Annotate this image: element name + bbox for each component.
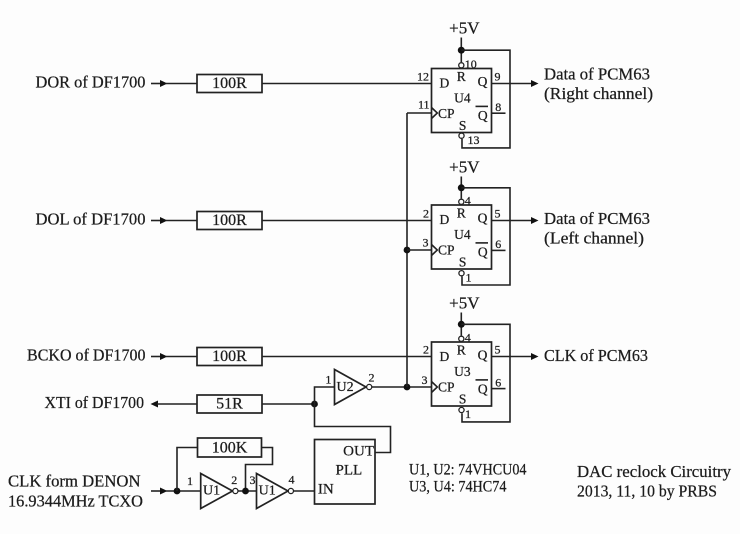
svg-text:R: R <box>457 205 466 220</box>
svg-text:Data of PCM63: Data of PCM63 <box>544 209 650 228</box>
U2 output bubble <box>367 384 372 389</box>
svg-text:U3: U3 <box>454 364 471 379</box>
svg-text:(Right channel): (Right channel) <box>544 84 653 103</box>
svg-text:8: 8 <box>495 100 501 114</box>
svg-text:4: 4 <box>465 193 471 207</box>
wire 100K to node C <box>246 448 273 492</box>
svg-text:2: 2 <box>369 371 375 385</box>
svg-text:100K: 100K <box>212 440 248 457</box>
svg-text:Data of PCM63: Data of PCM63 <box>544 65 650 84</box>
svg-text:S: S <box>459 392 467 407</box>
svg-text:D: D <box>440 212 450 227</box>
wire CLK input arrow <box>151 488 201 495</box>
svg-text:Q: Q <box>478 74 488 89</box>
U1b output bubble <box>288 488 293 493</box>
svg-text:U4: U4 <box>454 91 471 106</box>
svg-text:U1, U2: 74VHCU04: U1, U2: 74VHCU04 <box>409 462 527 479</box>
flip-flop U4 (right channel) box <box>432 69 492 134</box>
svg-text:+5V: +5V <box>449 19 480 38</box>
svg-text:11: 11 <box>418 98 430 112</box>
svg-text:51R: 51R <box>216 396 243 413</box>
wire U4 Qbar stub pin8 <box>492 112 506 114</box>
node +5V junction (middle) <box>458 184 465 191</box>
svg-text:PLL: PLL <box>336 463 363 479</box>
svg-text:S: S <box>459 118 467 133</box>
svg-text:CP: CP <box>438 242 455 257</box>
wire 100R to U4 D pin12 <box>262 83 432 85</box>
node +5V junction (top) <box>458 47 465 54</box>
resistor 100R (DOR) <box>197 75 262 93</box>
wire +5V to U3 R <box>460 313 462 336</box>
svg-text:Q: Q <box>478 211 488 226</box>
resistor 51R <box>197 395 262 413</box>
svg-text:100R: 100R <box>212 348 247 365</box>
svg-text:D: D <box>440 349 450 364</box>
svg-text:2: 2 <box>423 343 429 357</box>
svg-text:100R: 100R <box>212 75 247 92</box>
wire U1b to PLL IN <box>294 490 315 492</box>
svg-text:2013, 11, 10 by PRBS: 2013, 11, 10 by PRBS <box>577 482 717 501</box>
svg-text:IN: IN <box>318 482 334 498</box>
wire clock bus to U4 CP pin11 <box>407 112 432 114</box>
svg-text:D: D <box>440 76 450 91</box>
node clock bus junction at U2 output <box>404 384 411 391</box>
flip-flop U3 box <box>432 342 492 407</box>
inverter U1b triangle <box>257 474 289 509</box>
wire BCKO input arrow <box>151 353 197 360</box>
wire node B up to 100K <box>177 448 198 492</box>
wire +5V to U4b R <box>460 177 462 199</box>
node C junction between inverters <box>242 488 249 495</box>
svg-text:12: 12 <box>417 70 429 84</box>
svg-text:3: 3 <box>423 236 429 250</box>
wire U4b Q output with arrow <box>492 217 539 224</box>
op-amp U2 inverter triangle <box>335 370 367 405</box>
wire U2 output to U3 CP pin3 <box>372 386 432 388</box>
svg-text:3: 3 <box>422 373 428 387</box>
svg-text:16.9344MHz TCXO: 16.9344MHz TCXO <box>8 492 143 511</box>
wire XTI output arrow (points left) <box>151 401 198 408</box>
svg-text:U3, U4: 74HC74: U3, U4: 74HC74 <box>409 479 507 496</box>
U4 S input bubble pin13 <box>459 133 464 138</box>
U4b R input bubble pin4 <box>459 199 464 204</box>
svg-text:DOR of DF1700: DOR of DF1700 <box>36 73 146 92</box>
node B junction at U1 input <box>174 488 181 495</box>
svg-text:U1: U1 <box>203 484 220 499</box>
resistor 100R (BCKO) <box>197 348 262 366</box>
svg-text:U4: U4 <box>454 227 471 242</box>
node A junction <box>311 401 318 408</box>
wire node A up to U2 input <box>315 387 335 404</box>
U3 S input bubble pin1 <box>459 407 464 412</box>
U4 R input bubble pin10 <box>459 63 464 68</box>
svg-text:100R: 100R <box>212 212 247 229</box>
wire +5V junction to U3 S pin1 loop <box>461 324 510 422</box>
svg-text:(Left channel): (Left channel) <box>544 229 644 248</box>
svg-text:CLK of PCM63: CLK of PCM63 <box>544 346 648 365</box>
svg-text:Q: Q <box>478 381 488 396</box>
svg-text:9: 9 <box>495 70 501 84</box>
svg-text:2: 2 <box>423 207 429 221</box>
svg-text:1: 1 <box>466 271 472 285</box>
svg-text:5: 5 <box>495 207 501 221</box>
wire 51R to node A <box>262 403 315 405</box>
wire DOR input arrow <box>151 80 197 87</box>
svg-text:CP: CP <box>438 379 455 394</box>
U3 R input bubble pin4 <box>459 336 464 341</box>
flip-flop U4 (left channel) box <box>432 205 492 270</box>
svg-text:U2: U2 <box>337 380 354 395</box>
wire clock bus to U4b CP pin3 <box>407 249 432 251</box>
wire U1a to U1b <box>238 490 256 492</box>
node clock bus junction at U4b CP <box>404 247 411 254</box>
svg-text:4: 4 <box>289 473 295 487</box>
svg-text:BCKO of DF1700: BCKO of DF1700 <box>27 346 146 365</box>
node +5V junction (bottom) <box>458 321 465 328</box>
resistor 100R (DOL) <box>197 212 262 230</box>
PLL block <box>315 440 376 505</box>
svg-text:DAC reclock Circuitry: DAC reclock Circuitry <box>577 462 731 481</box>
svg-text:DOL of DF1700: DOL of DF1700 <box>36 210 146 229</box>
svg-text:5: 5 <box>495 343 501 357</box>
svg-text:1: 1 <box>465 407 471 421</box>
wire 100R to U3 D pin2 <box>262 356 432 358</box>
svg-text:S: S <box>459 255 467 270</box>
U4b S input bubble pin1 <box>459 271 464 276</box>
svg-text:3: 3 <box>250 473 256 487</box>
wire +5V junction to U4b S pin1 loop <box>461 188 510 285</box>
resistor 100K <box>198 438 262 457</box>
svg-text:CP: CP <box>438 106 455 121</box>
svg-text:13: 13 <box>468 133 480 147</box>
U1a output bubble <box>233 488 238 493</box>
inverter U1a triangle <box>201 474 233 509</box>
wire node A down to PLL OUT <box>315 404 391 453</box>
wire 100R to U4b D pin2 <box>262 220 432 222</box>
wire U3 Q output with arrow <box>492 353 539 360</box>
svg-text:U1: U1 <box>259 484 276 499</box>
svg-text:R: R <box>457 69 466 84</box>
svg-text:10: 10 <box>465 57 477 71</box>
svg-text:2: 2 <box>231 473 237 487</box>
wire +5V to U4 R <box>460 38 462 63</box>
wire U4b Qbar stub pin6 <box>492 249 506 251</box>
svg-text:CLK form DENON: CLK form DENON <box>8 472 141 491</box>
svg-text:1: 1 <box>325 373 331 387</box>
svg-text:1: 1 <box>187 474 193 488</box>
wire clock bus vertical <box>406 113 408 387</box>
svg-text:R: R <box>457 342 466 357</box>
svg-text:4: 4 <box>465 330 471 344</box>
svg-text:6: 6 <box>495 237 501 251</box>
svg-text:Q: Q <box>478 108 488 123</box>
wire +5V junction to U4 S pin13 loop <box>461 50 510 148</box>
svg-text:+5V: +5V <box>449 294 480 313</box>
wire U3 Qbar stub pin6 <box>492 388 506 390</box>
svg-text:Q: Q <box>478 348 488 363</box>
wire DOL input arrow <box>151 217 197 224</box>
svg-text:Q: Q <box>478 244 488 259</box>
svg-text:XTI of DF1700: XTI of DF1700 <box>45 393 145 412</box>
svg-text:+5V: +5V <box>449 158 480 177</box>
svg-text:6: 6 <box>495 375 501 389</box>
svg-text:OUT: OUT <box>343 444 374 460</box>
wire U4 Q output with arrow <box>492 80 539 87</box>
